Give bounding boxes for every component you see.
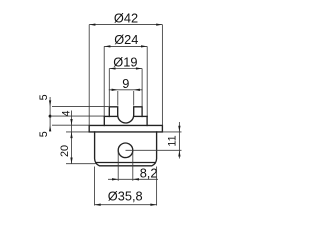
svg-text:11: 11 <box>167 135 179 146</box>
body <box>95 132 157 166</box>
boss top line right <box>134 115 147 117</box>
svg-text:Ø35,8: Ø35,8 <box>108 188 143 203</box>
body chamfer shoulder line <box>97 162 155 164</box>
hole circle <box>118 143 133 158</box>
svg-text:5: 5 <box>38 131 50 137</box>
dim O35,8 <box>95 204 157 206</box>
boss sides <box>104 116 147 125</box>
svg-text:9: 9 <box>122 76 129 91</box>
svg-text:Ø24: Ø24 <box>114 32 138 47</box>
svg-text:4: 4 <box>61 110 73 116</box>
boss top line left <box>104 115 118 117</box>
svg-text:Ø19: Ø19 <box>113 54 137 69</box>
left chain dim line (5 / 5) <box>49 97 51 132</box>
flange <box>89 125 162 131</box>
svg-text:8,2: 8,2 <box>140 165 158 180</box>
dim 8,2 <box>108 178 158 180</box>
part outline: clevis posts <box>109 107 142 123</box>
dim 9 <box>109 89 143 91</box>
dim O42 <box>89 24 162 26</box>
dim 4 / 20 line <box>71 111 73 164</box>
svg-text:5: 5 <box>38 94 50 100</box>
svg-text:20: 20 <box>59 145 71 157</box>
dim O24 <box>104 45 147 47</box>
svg-text:Ø42: Ø42 <box>114 11 138 26</box>
dim 11 right <box>178 122 180 159</box>
dim O19 <box>109 68 142 70</box>
